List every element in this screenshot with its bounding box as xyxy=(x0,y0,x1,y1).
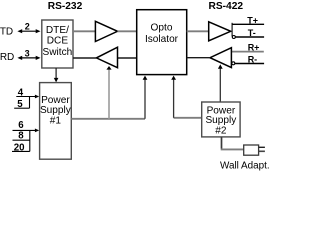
svg-text:DCE: DCE xyxy=(47,36,69,47)
power supply PS1 box xyxy=(40,83,72,160)
svg-text:TD: TD xyxy=(0,27,13,38)
opto isolator box xyxy=(137,10,187,75)
wire switch down to PS1 with arrow xyxy=(55,68,57,78)
plug prong 2 xyxy=(259,150,265,152)
svg-text:RS-232: RS-232 xyxy=(48,1,83,12)
wire supply bus PS1 to riser B xyxy=(71,118,145,120)
wire bracket vertical 4-5 xyxy=(29,97,31,109)
svg-text:RD: RD xyxy=(0,52,14,63)
wire pin 6 arrow into PS1 xyxy=(13,129,36,131)
plug prong 1 xyxy=(259,146,265,148)
wire pin 5 underline xyxy=(14,107,29,109)
wire driver output junction vertical xyxy=(231,23,233,37)
wire right bus riser C to PS2 xyxy=(174,117,202,119)
svg-text:R-: R- xyxy=(248,54,258,64)
wire riser A to RD buffer with arrow xyxy=(108,69,110,119)
buffer TD driver triangle xyxy=(95,21,117,41)
svg-text:T-: T- xyxy=(248,28,256,38)
wire riser C into opto with arrow xyxy=(173,79,175,117)
inverter bubble on R- input xyxy=(232,62,235,65)
wire TD buffer to opto xyxy=(118,30,137,32)
DTE/DCE switch box xyxy=(42,20,73,68)
svg-text:Supply: Supply xyxy=(40,105,72,116)
svg-text:RS-422: RS-422 xyxy=(209,1,244,12)
wire bracket vertical 6-8-20 xyxy=(29,130,31,151)
svg-text:T+: T+ xyxy=(247,15,258,25)
wire pin 8 underline xyxy=(13,139,30,141)
wire pin 4/5 arrow into PS1 xyxy=(16,96,36,98)
wire RD buffer to switch xyxy=(73,57,96,59)
svg-text:Opto: Opto xyxy=(151,22,173,33)
svg-text:Isolator: Isolator xyxy=(145,34,179,45)
wire RD pin-3 double arrow xyxy=(17,56,40,60)
svg-text:Wall Adapt.: Wall Adapt. xyxy=(220,161,270,172)
wire R- line xyxy=(235,63,264,65)
wire TD pin-2 double arrow xyxy=(17,29,40,33)
wire opto to RD buffer xyxy=(118,57,137,59)
svg-text:Switch: Switch xyxy=(43,47,73,58)
power supply PS2 box xyxy=(202,102,240,137)
wire R+ line xyxy=(231,51,263,53)
wire T- line xyxy=(235,36,264,38)
RS-422 receiver triangle xyxy=(210,48,231,68)
wire T+ line xyxy=(232,23,264,25)
inverter bubble on T- output xyxy=(232,36,235,39)
RS-422 driver triangle xyxy=(209,22,231,41)
svg-text:#2: #2 xyxy=(215,125,227,136)
buffer RD receiver triangle xyxy=(96,47,117,67)
wire riser B into opto with arrow xyxy=(144,79,146,118)
svg-text:2: 2 xyxy=(25,22,30,32)
wire switch to TD buffer xyxy=(73,30,95,32)
wire opto to RS-422 driver xyxy=(187,30,209,32)
wire receiver to opto xyxy=(187,57,210,59)
wire PS2 down to wall adapter xyxy=(221,137,223,149)
svg-text:3: 3 xyxy=(25,48,30,58)
svg-text:#1: #1 xyxy=(50,116,62,127)
wire riser D PS2 to RS-422 receiver with arrow xyxy=(219,68,221,102)
wire pin 20 underline xyxy=(12,150,30,152)
wall adapter plug xyxy=(244,145,259,155)
